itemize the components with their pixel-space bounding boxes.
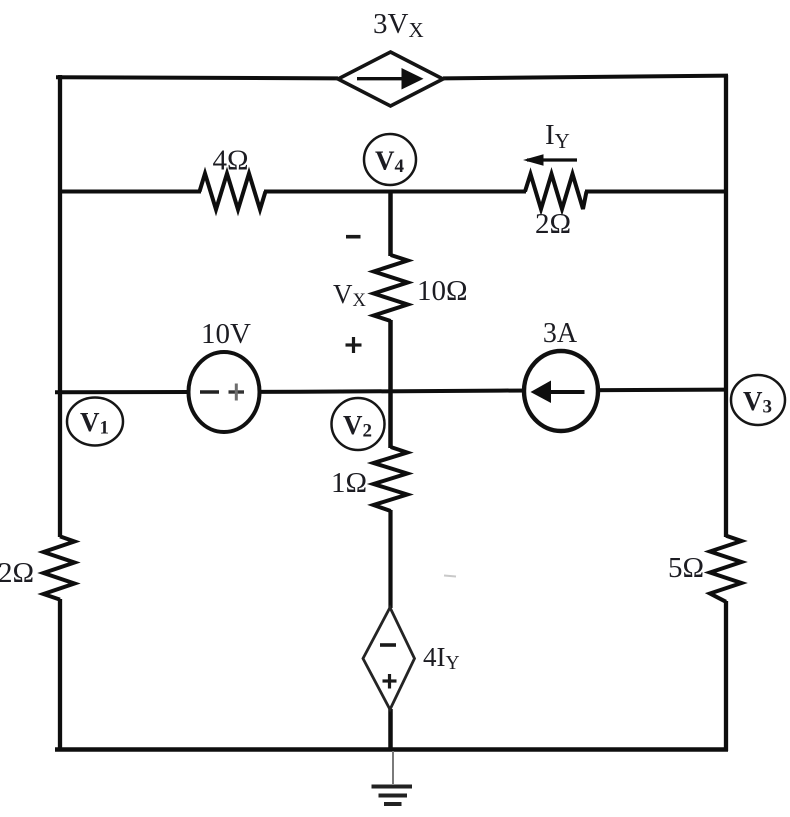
- svg-text:3A: 3A: [543, 318, 578, 349]
- svg-text:5Ω: 5Ω: [668, 552, 704, 584]
- svg-text:10V: 10V: [201, 318, 251, 350]
- svg-text:1Ω: 1Ω: [331, 467, 367, 499]
- svg-text:2Ω: 2Ω: [0, 557, 34, 589]
- svg-text:4Ω: 4Ω: [212, 145, 248, 177]
- svg-text:2Ω: 2Ω: [535, 208, 571, 240]
- svg-text:10Ω: 10Ω: [417, 275, 468, 307]
